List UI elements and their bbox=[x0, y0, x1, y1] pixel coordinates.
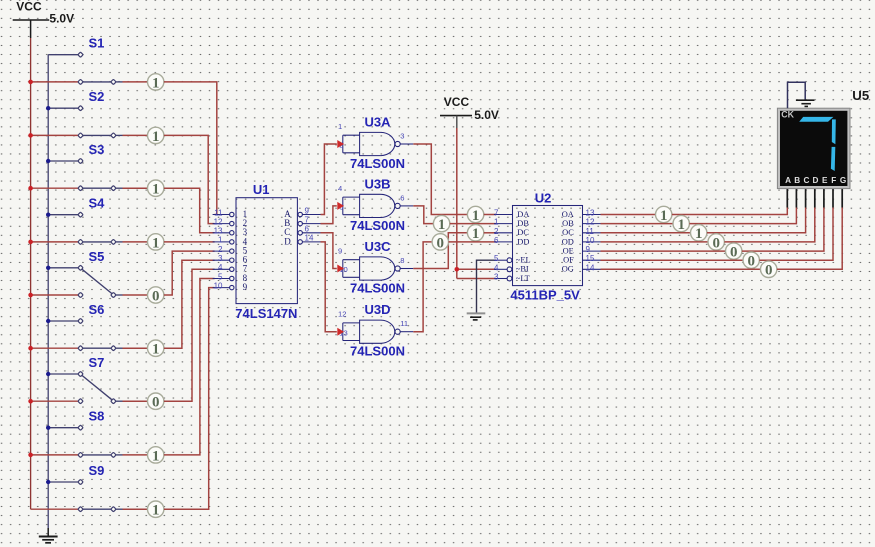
display pin E bbox=[823, 189, 825, 208]
svg-text:1: 1 bbox=[494, 218, 499, 227]
junction dot VCC2/~BI bbox=[455, 267, 460, 272]
junction arrow at U3C input bbox=[337, 265, 344, 273]
wire U2 OD to display segment D bbox=[601, 241, 709, 243]
lit segment B bbox=[832, 119, 836, 144]
svg-text:74LS147N: 74LS147N bbox=[235, 306, 297, 321]
junction dot VCC rail row S1 bbox=[28, 80, 33, 85]
switch S7 bbox=[31, 355, 123, 404]
svg-text:6: 6 bbox=[494, 236, 499, 245]
junction dot ground rail row S6 bbox=[46, 319, 50, 323]
wire U2 OB to display segment B bbox=[601, 223, 674, 225]
svg-text:4511BP_5V: 4511BP_5V bbox=[510, 287, 580, 302]
switch S4 bbox=[31, 196, 123, 245]
wire U3A output to U2 DA bbox=[413, 144, 467, 215]
svg-text:U3C: U3C bbox=[364, 239, 391, 254]
svg-text:4: 4 bbox=[218, 263, 223, 272]
svg-text:OD: OD bbox=[562, 237, 574, 246]
wire U3D output to U2 DD bbox=[413, 242, 432, 332]
U1 right pin 7 (output B) bbox=[284, 215, 320, 228]
junction arrow at U3A input bbox=[337, 140, 344, 148]
switch S6 bbox=[31, 302, 123, 351]
U2 left pin 6 (DD) bbox=[494, 236, 529, 246]
display pin B bbox=[795, 189, 797, 208]
probe indicator 1 on DA line bbox=[467, 206, 483, 224]
svg-text:5.0V: 5.0V bbox=[474, 108, 499, 122]
probe indicator 0 on segment F line bbox=[743, 252, 759, 270]
wire display CK to ground bbox=[788, 82, 806, 108]
svg-text:1: 1 bbox=[152, 448, 160, 464]
wire cont. bbox=[742, 208, 824, 252]
svg-text:OB: OB bbox=[562, 219, 574, 228]
svg-text:9: 9 bbox=[243, 282, 248, 292]
wire U2 ~EL to ground bbox=[477, 260, 497, 312]
U1 left pin 10 (input 9) bbox=[213, 281, 248, 292]
svg-text:0: 0 bbox=[747, 254, 755, 270]
seven-segment display U5 bbox=[777, 88, 869, 208]
wire U1 pin7 dark segment bbox=[321, 223, 333, 225]
display pin D bbox=[814, 189, 816, 208]
svg-text:OF: OF bbox=[563, 256, 574, 265]
wire S1 common to probe bbox=[123, 81, 148, 83]
wire S8 common to probe bbox=[123, 454, 148, 456]
svg-text:10: 10 bbox=[214, 281, 223, 290]
svg-text:F: F bbox=[831, 176, 836, 185]
svg-text:12: 12 bbox=[338, 310, 346, 319]
junction dot ground rail row S9 bbox=[46, 480, 50, 484]
wire U3B output to U2 DB bbox=[413, 206, 433, 224]
switch S3 bbox=[31, 142, 123, 191]
U1 left pin 3 (input 6) bbox=[213, 254, 248, 265]
lit segment C bbox=[831, 147, 835, 171]
junction dot ground rail row S5 bbox=[46, 266, 50, 270]
svg-text:OE: OE bbox=[563, 247, 574, 256]
svg-text:OC: OC bbox=[562, 228, 574, 237]
wire S4 common to probe bbox=[123, 241, 148, 243]
wire S5 common to probe bbox=[123, 294, 148, 296]
junction dot VCC rail row S6 bbox=[28, 346, 33, 351]
NAND gate U3D 74LS00N bbox=[338, 302, 413, 359]
switch S2 bbox=[31, 89, 123, 138]
switch S1 bbox=[31, 36, 123, 85]
junction dot ground rail row S2 bbox=[46, 106, 50, 110]
wire U1 output A to U3A input bbox=[321, 144, 337, 215]
wire S8 to U1 input bbox=[164, 279, 215, 455]
power VCC2 5.0V bbox=[440, 95, 499, 129]
wire S9 common to probe bbox=[123, 508, 148, 510]
wire U2 OA to display segment A bbox=[601, 214, 656, 216]
U1 left pin 11 (input 1) bbox=[213, 208, 248, 219]
svg-text:S9: S9 bbox=[89, 463, 105, 478]
wire cont. bbox=[689, 208, 796, 224]
svg-text:11: 11 bbox=[400, 319, 408, 328]
power VCC1 5.0V bbox=[13, 0, 74, 38]
svg-text:DA: DA bbox=[517, 210, 529, 219]
svg-text:1: 1 bbox=[677, 217, 685, 233]
U2 control pin 4 (~BI) bbox=[494, 263, 529, 273]
wire VCC2 to U2 ~BI/~LT bbox=[456, 128, 458, 279]
probe indicator 1 on S3 output bbox=[148, 180, 164, 198]
probe indicator 1 on S9 output bbox=[148, 501, 164, 519]
probe indicator 1 on DC line bbox=[467, 225, 483, 243]
wire cont. bbox=[450, 223, 496, 225]
U1 left pin 12 (input 2) bbox=[213, 217, 248, 228]
svg-text:15: 15 bbox=[586, 254, 595, 263]
svg-text:11: 11 bbox=[214, 208, 223, 217]
junction dot VCC rail row S5 bbox=[28, 293, 33, 298]
U2 control pin 3 (~LT) bbox=[494, 273, 530, 283]
probe indicator 1 on S8 output bbox=[148, 447, 164, 465]
svg-text:4: 4 bbox=[338, 184, 342, 193]
junction dot VCC rail row S8 bbox=[28, 453, 33, 458]
svg-text:0: 0 bbox=[712, 235, 720, 251]
svg-text:3: 3 bbox=[400, 131, 404, 140]
ground GND1 (bottom-left) bbox=[39, 528, 58, 543]
NAND gate U3A 74LS00N bbox=[338, 115, 413, 172]
switch S5 bbox=[31, 249, 123, 298]
svg-text:1: 1 bbox=[338, 122, 342, 131]
svg-text:6: 6 bbox=[305, 225, 310, 234]
svg-text:DB: DB bbox=[517, 219, 529, 228]
probe indicator 0 on S7 output bbox=[148, 393, 164, 411]
junction arrow at U3D input bbox=[337, 328, 344, 336]
U1 right pin 14 (output D) bbox=[284, 234, 320, 247]
wire cont. bbox=[759, 208, 833, 261]
svg-text:U3B: U3B bbox=[364, 176, 390, 191]
svg-text:S1: S1 bbox=[89, 36, 105, 51]
U2 right pin 12 (OB) bbox=[562, 218, 600, 228]
wire cont. bbox=[484, 214, 496, 216]
svg-text:14: 14 bbox=[305, 234, 314, 243]
svg-text:4: 4 bbox=[494, 263, 499, 272]
svg-text:~BI: ~BI bbox=[516, 265, 529, 274]
U1 left pin 5 (input 8) bbox=[213, 272, 248, 283]
svg-text:0: 0 bbox=[437, 235, 445, 251]
probe indicator 1 on segment C line bbox=[691, 225, 707, 243]
svg-text:1: 1 bbox=[152, 75, 160, 91]
probe indicator 0 on DD line bbox=[432, 234, 448, 252]
svg-text:5.0V: 5.0V bbox=[49, 11, 74, 25]
svg-text:S7: S7 bbox=[89, 355, 105, 370]
wire S5 to U1 input bbox=[164, 251, 215, 295]
wire U1 output B to U3B input bbox=[321, 206, 337, 224]
U2 left pin 2 (DC) bbox=[494, 227, 529, 237]
svg-text:S3: S3 bbox=[89, 142, 105, 157]
svg-text:1: 1 bbox=[472, 208, 480, 224]
junction dot ground rail row S7 bbox=[46, 372, 50, 376]
svg-text:0: 0 bbox=[765, 263, 773, 279]
display pin A bbox=[786, 189, 788, 208]
svg-text:1: 1 bbox=[660, 208, 668, 224]
svg-text:G: G bbox=[840, 176, 846, 185]
svg-text:9: 9 bbox=[305, 206, 310, 215]
wire cont. bbox=[672, 208, 787, 215]
svg-text:CK: CK bbox=[781, 109, 794, 119]
svg-text:1: 1 bbox=[472, 226, 480, 242]
svg-text:1: 1 bbox=[218, 236, 223, 245]
svg-text:1: 1 bbox=[152, 503, 160, 519]
svg-text:74LS00N: 74LS00N bbox=[350, 281, 405, 296]
junction dot VCC rail row S2 bbox=[28, 133, 33, 138]
U1 left pin 1 (input 4) bbox=[213, 236, 248, 247]
svg-text:0: 0 bbox=[730, 245, 738, 261]
probe indicator 1 on S6 output bbox=[148, 340, 164, 358]
svg-text:9: 9 bbox=[338, 247, 342, 256]
svg-text:12: 12 bbox=[214, 217, 223, 226]
wire U2 OG to display segment G bbox=[601, 268, 761, 270]
U1 left pin 2 (input 5) bbox=[213, 245, 248, 256]
svg-text:DC: DC bbox=[517, 228, 529, 237]
wire U2 OF to display segment F bbox=[601, 259, 744, 261]
svg-text:5: 5 bbox=[494, 254, 499, 263]
svg-text:B: B bbox=[794, 176, 800, 185]
svg-text:~LT: ~LT bbox=[516, 274, 530, 283]
wire cont. bbox=[777, 208, 842, 270]
U1 right pin 6 (output C) bbox=[284, 225, 320, 238]
svg-text:12: 12 bbox=[586, 218, 595, 227]
wire VCC rail vertical bbox=[30, 38, 32, 509]
NAND gate U3C 74LS00N bbox=[338, 239, 413, 296]
U2 control pin 5 (~EL) bbox=[494, 254, 531, 264]
wire S1 to U1 input bbox=[164, 82, 217, 215]
svg-text:74LS00N: 74LS00N bbox=[350, 344, 405, 359]
U1 right pin 9 (output A) bbox=[284, 206, 320, 219]
svg-text:U5: U5 bbox=[852, 88, 869, 103]
wire U2 OE to display segment E bbox=[601, 250, 726, 252]
svg-text:1: 1 bbox=[152, 182, 160, 198]
svg-text:0: 0 bbox=[152, 395, 160, 411]
wire S7 common to probe bbox=[123, 400, 148, 402]
svg-text:D: D bbox=[813, 176, 819, 185]
svg-text:13: 13 bbox=[214, 227, 223, 236]
probe indicator 1 on segment A line bbox=[656, 206, 672, 224]
wire S9 to U1 input bbox=[164, 288, 215, 510]
svg-text:6: 6 bbox=[400, 193, 404, 202]
U2 left pin 7 (DA) bbox=[494, 209, 529, 219]
U2 right pin 15 (OF) bbox=[563, 254, 600, 264]
wire cont. bbox=[707, 208, 806, 233]
display pin G bbox=[841, 189, 843, 208]
U1 left pin 4 (input 7) bbox=[213, 263, 248, 274]
svg-text:D: D bbox=[284, 236, 291, 246]
svg-text:U3A: U3A bbox=[364, 115, 391, 130]
svg-text:VCC: VCC bbox=[16, 0, 42, 14]
wire cont. bbox=[724, 208, 814, 242]
svg-text:3: 3 bbox=[494, 273, 499, 282]
wire S3 common to probe bbox=[123, 187, 148, 189]
U2 right pin 11 (OC) bbox=[562, 227, 600, 237]
svg-text:9: 9 bbox=[586, 245, 591, 254]
probe indicator 0 on S5 output bbox=[148, 287, 164, 305]
svg-text:11: 11 bbox=[586, 227, 595, 236]
svg-text:7: 7 bbox=[305, 215, 310, 224]
svg-text:OA: OA bbox=[562, 210, 574, 219]
wire U1 output C to U3C input bbox=[321, 233, 337, 269]
svg-text:74LS00N: 74LS00N bbox=[350, 156, 405, 171]
wire U2 OC to display segment C bbox=[601, 232, 691, 234]
svg-text:A: A bbox=[785, 176, 791, 185]
junction arrow at U3B input bbox=[337, 202, 344, 210]
svg-text:14: 14 bbox=[586, 263, 595, 272]
svg-text:VCC: VCC bbox=[444, 95, 470, 109]
ground GND3 (above display) bbox=[796, 100, 815, 106]
junction dot ground rail row S4 bbox=[46, 213, 50, 217]
U2 right pin 10 (OD) bbox=[562, 236, 601, 246]
junction dot ground rail row S8 bbox=[46, 426, 50, 430]
junction dot VCC rail row S7 bbox=[28, 399, 33, 404]
svg-text:1: 1 bbox=[152, 235, 160, 251]
svg-text:S5: S5 bbox=[89, 249, 105, 264]
svg-text:1: 1 bbox=[152, 342, 160, 358]
switch S8 bbox=[31, 409, 123, 458]
wire U1 output D to U3D input bbox=[321, 242, 337, 332]
wire S4 to U1 input bbox=[164, 241, 215, 243]
display pin C bbox=[805, 189, 807, 208]
svg-text:DD: DD bbox=[517, 237, 529, 246]
wire S6 common to probe bbox=[123, 347, 148, 349]
U2 right pin 9 (OE) bbox=[563, 245, 601, 255]
junction dot ground rail row S3 bbox=[46, 159, 50, 163]
display pin F bbox=[832, 189, 834, 208]
wire cont. bbox=[484, 232, 496, 234]
svg-text:1: 1 bbox=[695, 226, 703, 242]
svg-text:U1: U1 bbox=[253, 182, 270, 197]
probe indicator 1 on DB line bbox=[433, 215, 449, 233]
svg-text:S2: S2 bbox=[89, 89, 105, 104]
probe indicator 1 on segment B line bbox=[673, 215, 689, 233]
svg-text:1: 1 bbox=[438, 217, 446, 233]
svg-text:0: 0 bbox=[152, 288, 160, 304]
probe indicator 1 on S1 output bbox=[148, 74, 164, 92]
wire S2 to U1 input bbox=[164, 135, 215, 223]
U1 left pin 13 (input 3) bbox=[213, 227, 248, 238]
U2 left pin 1 (DB) bbox=[494, 218, 529, 228]
lit segment A bbox=[799, 117, 833, 122]
probe indicator 0 on segment D line bbox=[708, 234, 724, 252]
IC U1 74LS147N bbox=[213, 182, 321, 321]
svg-text:8: 8 bbox=[400, 256, 404, 265]
wire U3C output to U2 DC bbox=[413, 233, 467, 269]
junction dot VCC rail row S4 bbox=[28, 240, 33, 245]
wire S2 common to probe bbox=[123, 134, 148, 136]
svg-text:5: 5 bbox=[218, 272, 223, 281]
ground GND2 (below U2 controls) bbox=[467, 313, 486, 320]
probe indicator 0 on segment G line bbox=[761, 261, 777, 279]
probe indicator 1 on S2 output bbox=[148, 127, 164, 145]
svg-text:OG: OG bbox=[562, 265, 574, 274]
svg-text:1: 1 bbox=[152, 129, 160, 145]
svg-text:S6: S6 bbox=[89, 302, 105, 317]
svg-text:10: 10 bbox=[586, 236, 595, 245]
wire S7 to U1 input bbox=[164, 269, 215, 401]
U2 right pin 13 (OA) bbox=[562, 209, 601, 219]
svg-text:74LS00N: 74LS00N bbox=[350, 218, 405, 233]
IC U2 4511BP_5V bbox=[494, 190, 601, 302]
svg-text:2: 2 bbox=[494, 227, 499, 236]
wire S3 to U1 input bbox=[164, 188, 215, 233]
probe indicator 0 on segment E line bbox=[726, 243, 742, 261]
svg-text:2: 2 bbox=[218, 245, 223, 254]
NAND gate U3B 74LS00N bbox=[338, 176, 413, 233]
svg-text:7: 7 bbox=[494, 209, 499, 218]
switch S9 bbox=[31, 463, 123, 512]
wire S6 to U1 input bbox=[164, 260, 215, 348]
svg-text:C: C bbox=[803, 176, 809, 185]
U2 right pin 14 (OG) bbox=[562, 263, 601, 273]
svg-text:~EL: ~EL bbox=[516, 256, 531, 265]
svg-text:13: 13 bbox=[586, 209, 595, 218]
svg-text:S8: S8 bbox=[89, 409, 105, 424]
svg-text:E: E bbox=[822, 176, 828, 185]
svg-text:3: 3 bbox=[218, 254, 223, 263]
wire ground rail vertical bbox=[47, 55, 49, 528]
junction dot VCC rail row S3 bbox=[28, 186, 33, 191]
svg-text:U2: U2 bbox=[535, 190, 552, 205]
svg-text:U3D: U3D bbox=[364, 302, 390, 317]
wire cont. bbox=[449, 241, 497, 243]
svg-text:S4: S4 bbox=[89, 196, 106, 211]
probe indicator 1 on S4 output bbox=[148, 234, 164, 252]
